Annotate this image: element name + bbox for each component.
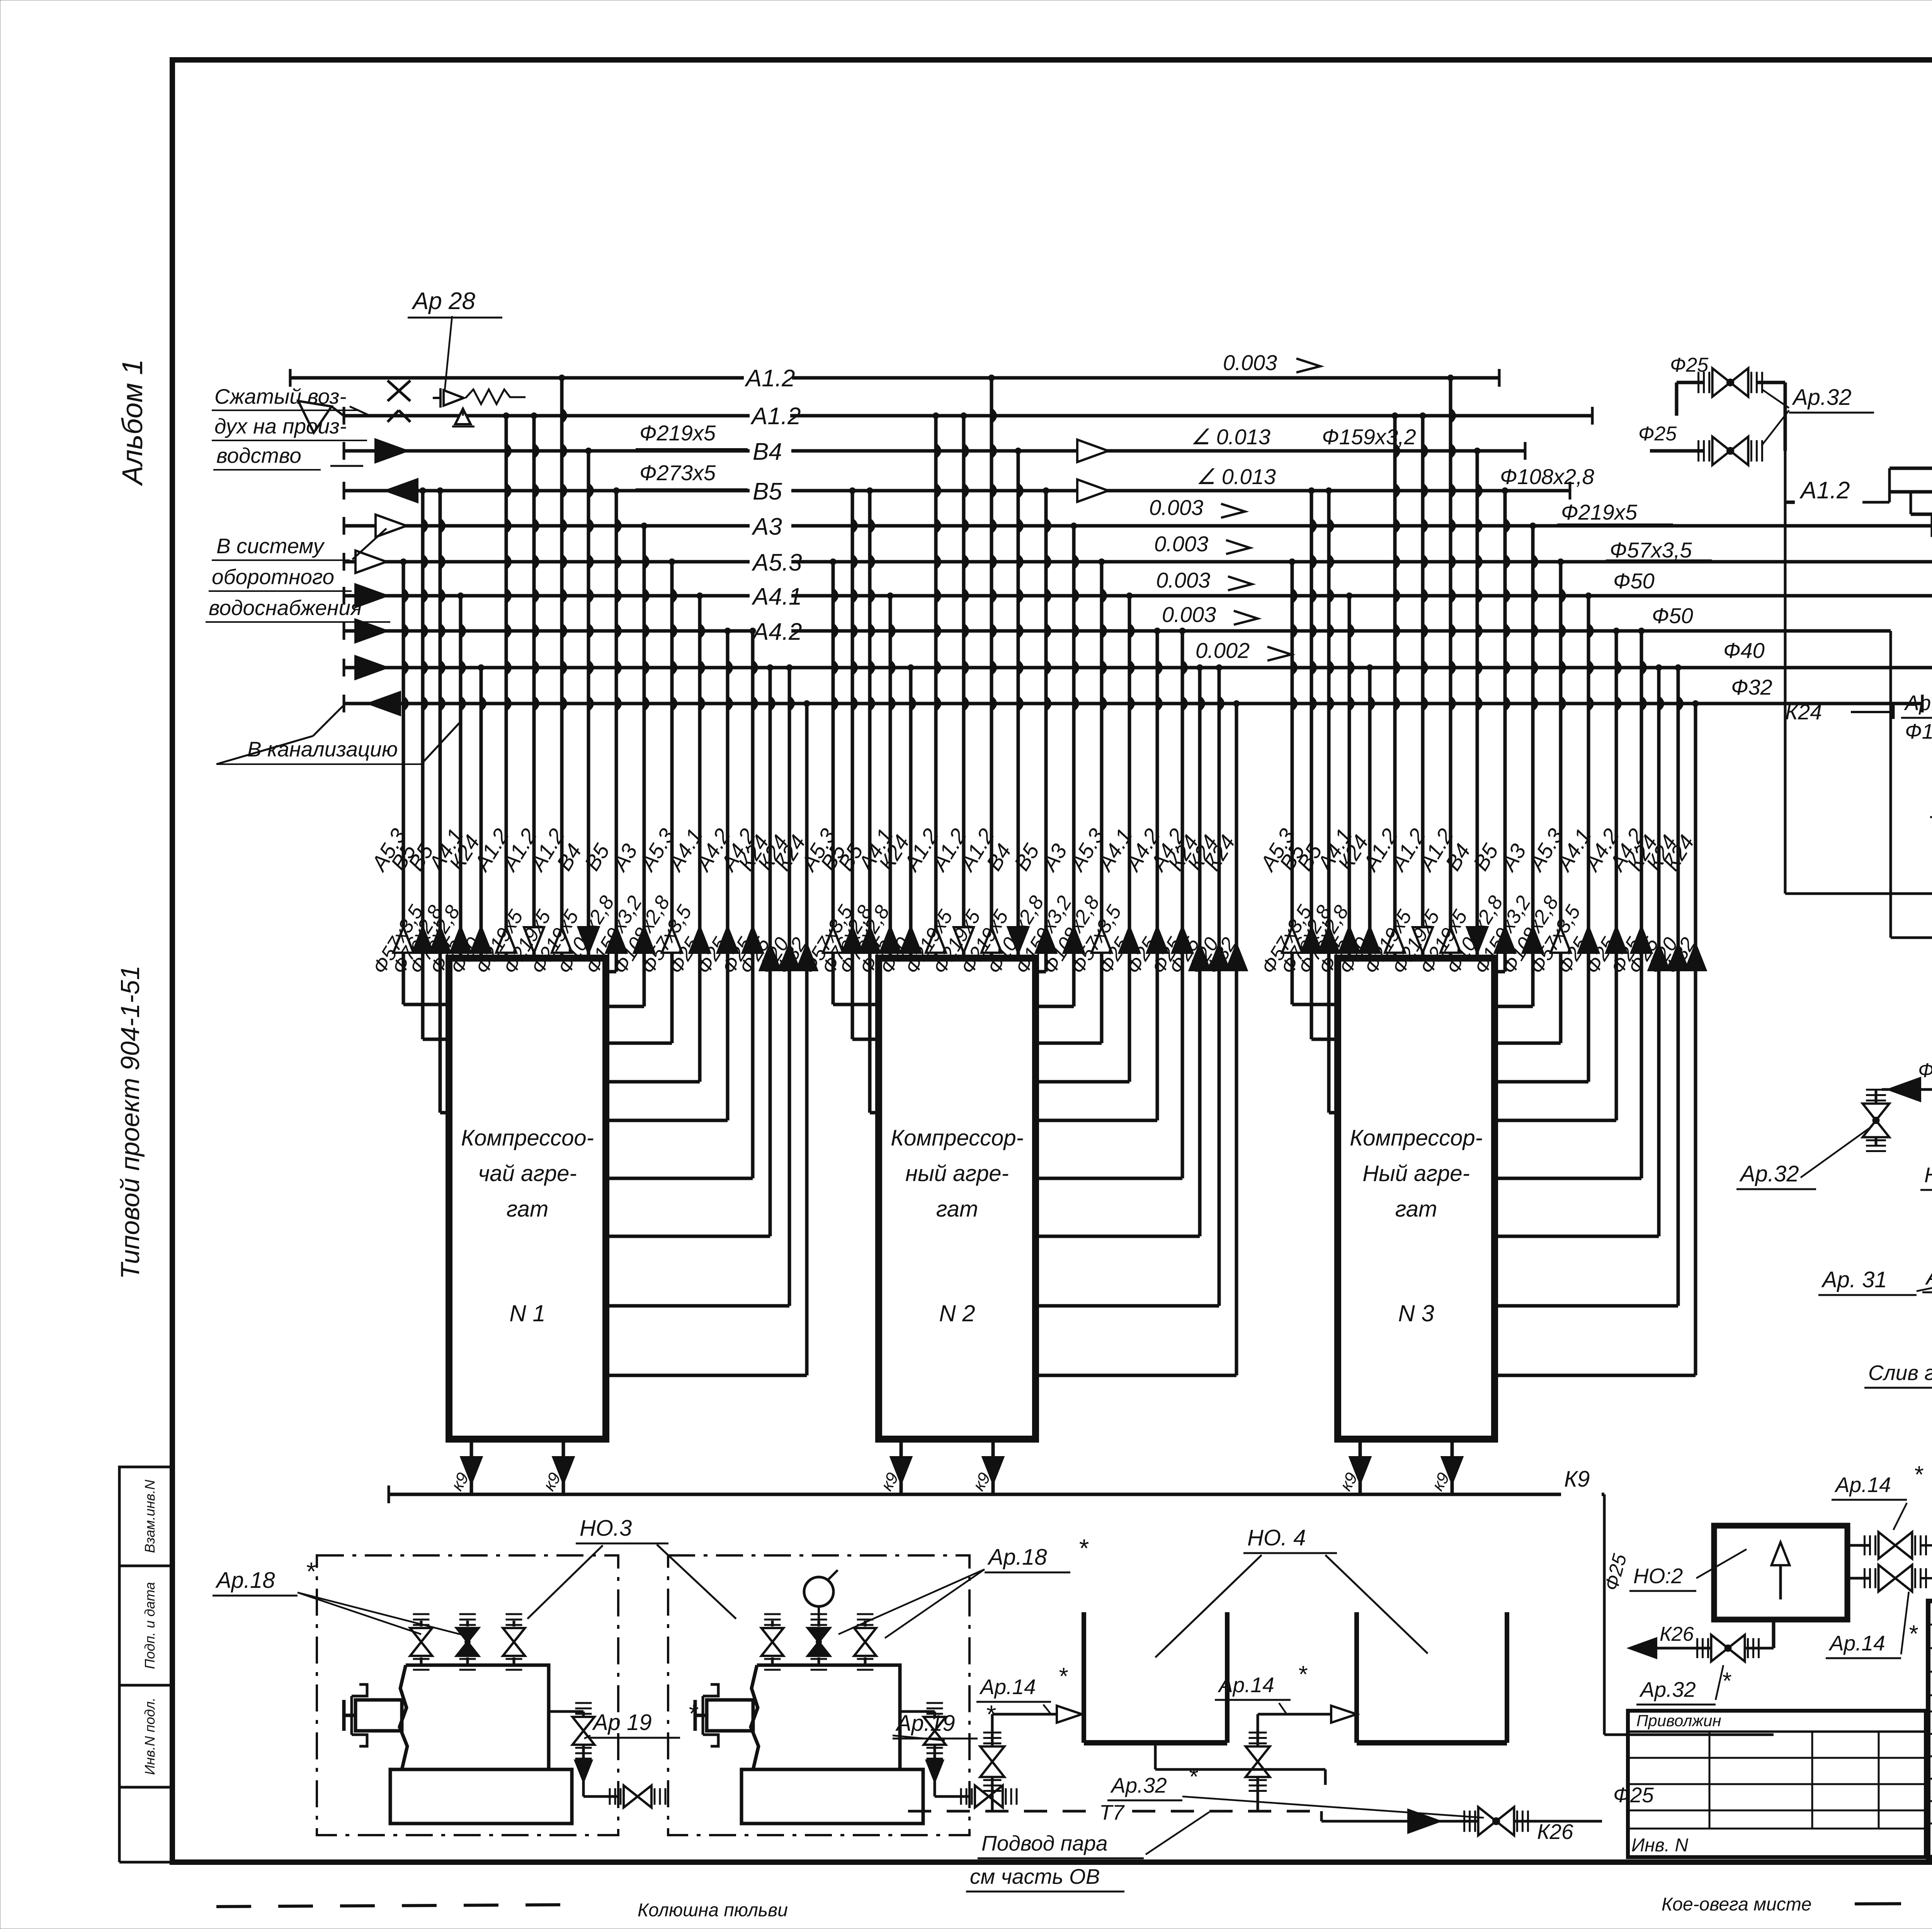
svg-text:*: * xyxy=(1058,1663,1068,1690)
svg-text:водоснабжения: водоснабжения xyxy=(209,596,362,620)
svg-text:Инв. N: Инв. N xyxy=(1631,1835,1688,1856)
svg-text:∠ 0.013: ∠ 0.013 xyxy=(1191,425,1270,449)
svg-text:Ар 19: Ар 19 xyxy=(592,1710,652,1735)
svg-text:А3: А3 xyxy=(751,513,782,540)
svg-text:Ар. 17: Ар. 17 xyxy=(1925,1264,1932,1290)
svg-text:Приволжин: Приволжин xyxy=(1636,1711,1721,1730)
svg-text:Подвод пара: Подвод пара xyxy=(981,1831,1108,1855)
svg-text:Ф159x3,2: Ф159x3,2 xyxy=(1322,425,1416,449)
svg-text:*: * xyxy=(1908,1621,1918,1647)
svg-text:водство: водство xyxy=(216,444,301,467)
svg-text:Компрессоо-: Компрессоо- xyxy=(461,1125,594,1151)
svg-text:Ф25: Ф25 xyxy=(1638,423,1677,445)
svg-text:А1.2: А1.2 xyxy=(1799,477,1850,504)
svg-text:Альбом 1: Альбом 1 xyxy=(116,359,148,486)
svg-text:Типовой проект 904-1-51: Типовой проект 904-1-51 xyxy=(116,965,145,1279)
svg-text:Ар.32: Ар.32 xyxy=(1110,1773,1167,1797)
svg-text:Ф40: Ф40 xyxy=(1723,638,1765,663)
svg-text:Ар.12: Ар.12 xyxy=(1904,691,1932,715)
svg-text:*: * xyxy=(1078,1534,1089,1562)
svg-text:0.003: 0.003 xyxy=(1156,568,1210,592)
svg-text:0.002: 0.002 xyxy=(1196,638,1250,663)
svg-text:В5: В5 xyxy=(753,478,782,505)
svg-text:НО:2: НО:2 xyxy=(1633,1564,1683,1588)
svg-text:Ф108x2,8: Ф108x2,8 xyxy=(1500,464,1594,489)
svg-text:см часть ОВ: см часть ОВ xyxy=(970,1864,1100,1888)
svg-text:Ар.14: Ар.14 xyxy=(1828,1631,1885,1655)
svg-text:Т7: Т7 xyxy=(1099,1800,1125,1824)
svg-text:Ар.14: Ар.14 xyxy=(1218,1673,1274,1697)
svg-text:гат: гат xyxy=(936,1196,978,1222)
svg-text:*: * xyxy=(688,1699,699,1728)
svg-text:Ар.32: Ар.32 xyxy=(1792,385,1852,410)
svg-text:Ный агре-: Ный агре- xyxy=(1362,1161,1470,1186)
svg-text:А1.2: А1.2 xyxy=(744,365,795,392)
svg-text:0.003: 0.003 xyxy=(1162,602,1216,627)
svg-text:N 3: N 3 xyxy=(1398,1300,1434,1326)
svg-text:Ар.18: Ар.18 xyxy=(215,1568,275,1593)
svg-text:гат: гат xyxy=(1395,1196,1437,1222)
svg-text:*: * xyxy=(1913,1462,1923,1488)
svg-text:А4.2: А4.2 xyxy=(751,619,802,645)
svg-text:*: * xyxy=(1188,1764,1198,1790)
svg-text:0.003: 0.003 xyxy=(1154,532,1208,556)
svg-text:А4.1: А4.1 xyxy=(751,583,802,610)
svg-text:Ар.14: Ар.14 xyxy=(979,1675,1036,1699)
svg-text:Ар. 31: Ар. 31 xyxy=(1821,1267,1887,1292)
svg-text:гат: гат xyxy=(507,1196,549,1222)
svg-text:Инв.N подл.: Инв.N подл. xyxy=(142,1698,158,1775)
svg-text:К26: К26 xyxy=(1660,1623,1694,1645)
svg-text:Ар.18: Ар.18 xyxy=(987,1545,1047,1570)
svg-text:Кое-овега мисте: Кое-овега мисте xyxy=(1662,1894,1812,1915)
svg-text:НО б: НО б xyxy=(1924,1163,1932,1187)
svg-text:оборотного: оборотного xyxy=(212,565,334,589)
svg-text:Компрессор-: Компрессор- xyxy=(1350,1125,1483,1151)
svg-text:Подп. и дата: Подп. и дата xyxy=(142,1582,158,1669)
svg-text:Ф32: Ф32 xyxy=(1731,675,1772,699)
svg-text:Ф25: Ф25 xyxy=(1670,354,1709,376)
svg-text:Колюшна пюльви: Колюшна пюльви xyxy=(638,1900,788,1921)
svg-text:Ф25: Ф25 xyxy=(1613,1783,1654,1807)
svg-text:Ф57x3,5: Ф57x3,5 xyxy=(1610,538,1692,562)
svg-text:*: * xyxy=(1721,1668,1731,1694)
svg-text:0.003: 0.003 xyxy=(1149,495,1203,520)
svg-text:0.003: 0.003 xyxy=(1223,350,1277,375)
svg-text:чай агре-: чай агре- xyxy=(478,1161,577,1186)
svg-text:Компрессор-: Компрессор- xyxy=(891,1125,1024,1151)
svg-text:А1.2: А1.2 xyxy=(750,403,801,430)
svg-text:Сжатый воз-: Сжатый воз- xyxy=(214,384,347,408)
svg-text:ный агре-: ный агре- xyxy=(905,1161,1009,1186)
svg-text:Ар.32: Ар.32 xyxy=(1739,1161,1799,1186)
svg-text:Ф219x5: Ф219x5 xyxy=(639,421,716,445)
svg-text:В систему: В систему xyxy=(216,534,325,558)
svg-text:Взам.инв.N: Взам.инв.N xyxy=(142,1479,158,1553)
svg-text:Ф15: Ф15 xyxy=(1905,719,1932,743)
svg-text:Ф50: Ф50 xyxy=(1652,603,1693,628)
svg-text:НО. 4: НО. 4 xyxy=(1247,1525,1306,1550)
svg-text:∠ 0.013: ∠ 0.013 xyxy=(1196,464,1276,489)
svg-text:Ф273x5: Ф273x5 xyxy=(639,461,716,485)
svg-text:А5.3: А5.3 xyxy=(751,549,802,576)
svg-text:К26: К26 xyxy=(1537,1820,1573,1844)
svg-text:В4: В4 xyxy=(753,438,782,465)
svg-text:*: * xyxy=(305,1557,316,1586)
svg-text:Ф219x5: Ф219x5 xyxy=(1561,500,1638,524)
svg-text:дух на произ-: дух на произ- xyxy=(214,414,347,438)
svg-text:К9: К9 xyxy=(1564,1467,1590,1492)
svg-text:НО.3: НО.3 xyxy=(580,1516,632,1541)
svg-text:Ар.14: Ар.14 xyxy=(1834,1473,1891,1497)
svg-text:Ар 28: Ар 28 xyxy=(411,288,476,314)
svg-text:N 2: N 2 xyxy=(939,1300,975,1326)
svg-text:N 1: N 1 xyxy=(509,1300,545,1326)
svg-text:К24: К24 xyxy=(1785,700,1822,724)
svg-text:*: * xyxy=(1298,1661,1308,1688)
svg-text:Слив грязи: Слив грязи xyxy=(1868,1361,1932,1385)
svg-text:Ар.19: Ар.19 xyxy=(895,1711,955,1736)
svg-text:Ф50: Ф50 xyxy=(1613,569,1655,593)
svg-text:Ар.32: Ар.32 xyxy=(1639,1677,1696,1701)
